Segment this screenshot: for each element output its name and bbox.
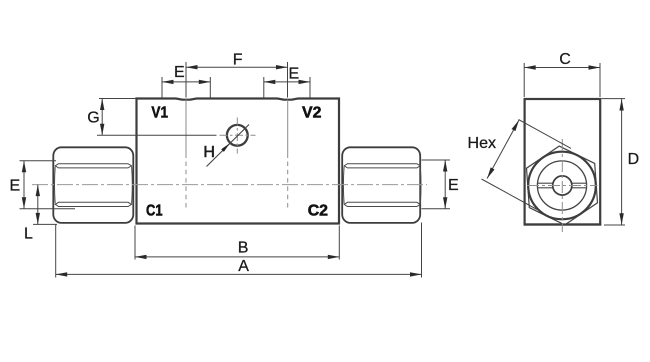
hex nut hexagon (527, 146, 598, 225)
dimension E right (front view) (422, 160, 451, 209)
mid-face end arcs (54, 167, 57, 204)
side view centerline horizontal (527, 185, 598, 187)
hidden dashed line V2 port (287, 100, 289, 159)
dimension Hex (482, 120, 572, 210)
svg-text:D: D (628, 151, 640, 168)
leader line H (207, 125, 250, 167)
main horizontal centerline (32, 184, 427, 186)
dimension E top-right (264, 77, 310, 98)
dimension E left (20, 161, 76, 209)
svg-text:E: E (174, 64, 185, 81)
leader arrowhead (221, 143, 229, 152)
dimension F (186, 62, 288, 98)
dimension C (524, 63, 600, 97)
side view body rectangle (525, 99, 601, 225)
svg-text:B: B (238, 240, 249, 257)
dimension D (602, 99, 626, 225)
svg-text:L: L (24, 226, 33, 243)
svg-text:C1: C1 (146, 203, 163, 220)
right fitting hex side view (342, 147, 421, 223)
left fitting hex side view (53, 147, 133, 223)
bore circle (553, 176, 572, 195)
svg-text:E: E (289, 65, 300, 82)
washer circle (537, 161, 586, 210)
svg-text:E: E (10, 178, 21, 195)
svg-text:A: A (238, 258, 249, 275)
chamfer circle (528, 152, 596, 220)
dimension G (97, 99, 217, 136)
dimension B (135, 226, 339, 260)
svg-text:C: C (559, 51, 571, 68)
svg-text:C2: C2 (308, 203, 328, 220)
gauge port circle H (227, 125, 248, 146)
hidden dashed line V1 port (185, 100, 187, 159)
dimension A (56, 223, 422, 278)
side view rect bottom edge redraw (524, 223, 602, 225)
side view centerline vertical (561, 139, 563, 232)
svg-text:E: E (448, 177, 459, 194)
upper facet lens (55, 164, 131, 168)
dimension L (33, 185, 57, 225)
lower facet lens (55, 202, 131, 206)
valve body rectangle with port dips (137, 99, 340, 224)
circle crosshair vertical (236, 118, 238, 154)
svg-text:V2: V2 (302, 105, 321, 122)
circle crosshair horizontal (220, 134, 256, 136)
svg-text:Hex: Hex (468, 135, 497, 152)
plug slot lines (537, 182, 553, 184)
svg-text:V1: V1 (151, 105, 168, 122)
svg-text:H: H (203, 144, 215, 161)
svg-text:G: G (87, 110, 99, 127)
svg-text:F: F (233, 51, 243, 68)
dimension E top-left (162, 77, 210, 98)
